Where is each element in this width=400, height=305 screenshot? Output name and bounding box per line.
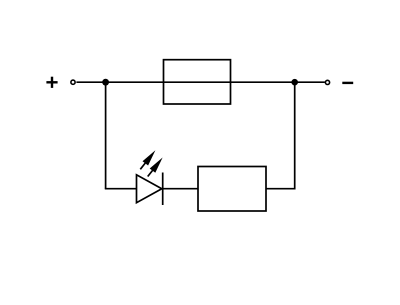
wire: bottom left corner to LED anode [105,188,137,190]
LED D1 light arrow 1 [140,150,155,169]
wire: resistor to bottom right corner and up to right node [266,82,295,189]
− terminal label [342,82,353,84]
node (right junction) [291,79,298,86]
node (left junction) [102,79,109,86]
wire: left node down [105,82,107,189]
wire: left terminal to left node [76,81,105,83]
LED D1 light arrow 2 [148,158,163,177]
wire: right node to right terminal [295,81,325,83]
LED D1 (triangle + cathode bar) [137,173,163,206]
+ terminal label [46,77,57,88]
wire: fuse to right node [231,81,295,83]
wire: left node to fuse [106,81,164,83]
right terminal (open circle) [325,80,329,84]
wire: LED cathode to resistor [163,188,198,190]
fuse F1 [164,60,231,104]
left terminal (open circle) [71,80,75,84]
resistor R1 [198,167,266,212]
